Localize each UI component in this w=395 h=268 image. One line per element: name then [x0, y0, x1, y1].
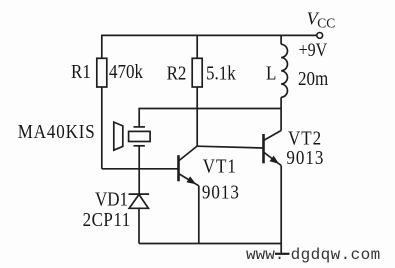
- svg-text:5.1k: 5.1k: [206, 62, 236, 83]
- svg-text:+9V: +9V: [299, 40, 328, 60]
- label watermark www.dgdqw.com: [246, 246, 381, 264]
- svg-text:VD1: VD1: [95, 188, 128, 209]
- label VT2: [288, 128, 322, 149]
- label VD1: [95, 188, 128, 209]
- svg-text:www.: www.: [246, 246, 284, 264]
- label 5.1k: [206, 62, 236, 83]
- label R1: [71, 61, 91, 82]
- label 470k: [109, 61, 144, 82]
- svg-text:R1: R1: [71, 61, 91, 82]
- label 9013 of VT2: [286, 147, 324, 168]
- svg-text:R2: R2: [167, 62, 187, 83]
- wire transducer top to L column: [139, 109, 281, 127]
- svg-text:L: L: [266, 62, 276, 83]
- label R2: [167, 62, 187, 83]
- wire bottom rail: [139, 243, 281, 245]
- wire top supply rail: [102, 35, 317, 58]
- wire VT2 emitter down: [280, 166, 282, 244]
- label 20m: [298, 68, 329, 89]
- svg-text:9013: 9013: [202, 181, 240, 202]
- wire collector node to VT2 base: [197, 146, 263, 148]
- resistor R1: [97, 58, 107, 169]
- svg-text:MA40KIS: MA40KIS: [18, 121, 96, 142]
- svg-text:dgdqw.com: dgdqw.com: [291, 246, 381, 264]
- svg-text:VT2: VT2: [288, 128, 322, 149]
- svg-text:20m: 20m: [298, 68, 329, 89]
- inductor L: [281, 35, 287, 130]
- svg-text:9013: 9013: [286, 147, 324, 168]
- label L: [266, 62, 276, 83]
- label MA40KIS: [18, 121, 96, 142]
- svg-text:2CP11: 2CP11: [83, 209, 131, 230]
- svg-text:470k: 470k: [109, 61, 144, 82]
- transducer MA40KIS: [114, 122, 150, 169]
- wire base node: [102, 169, 179, 194]
- label VT1: [203, 156, 237, 177]
- label 2CP11: [83, 209, 131, 230]
- svg-text:VT1: VT1: [203, 156, 237, 177]
- label 9013 of VT1: [202, 181, 240, 202]
- transistor VT2: [264, 131, 282, 166]
- wire VT1 emitter down: [198, 186, 200, 244]
- ground: [275, 244, 290, 255]
- terminal Vcc: [317, 33, 323, 39]
- label +9V: [299, 40, 328, 60]
- label Vcc: [307, 9, 336, 31]
- diode VD1: [129, 194, 150, 243]
- resistor R2: [192, 35, 202, 146]
- svg-text:CC: CC: [317, 16, 335, 31]
- transistor VT1: [179, 146, 199, 186]
